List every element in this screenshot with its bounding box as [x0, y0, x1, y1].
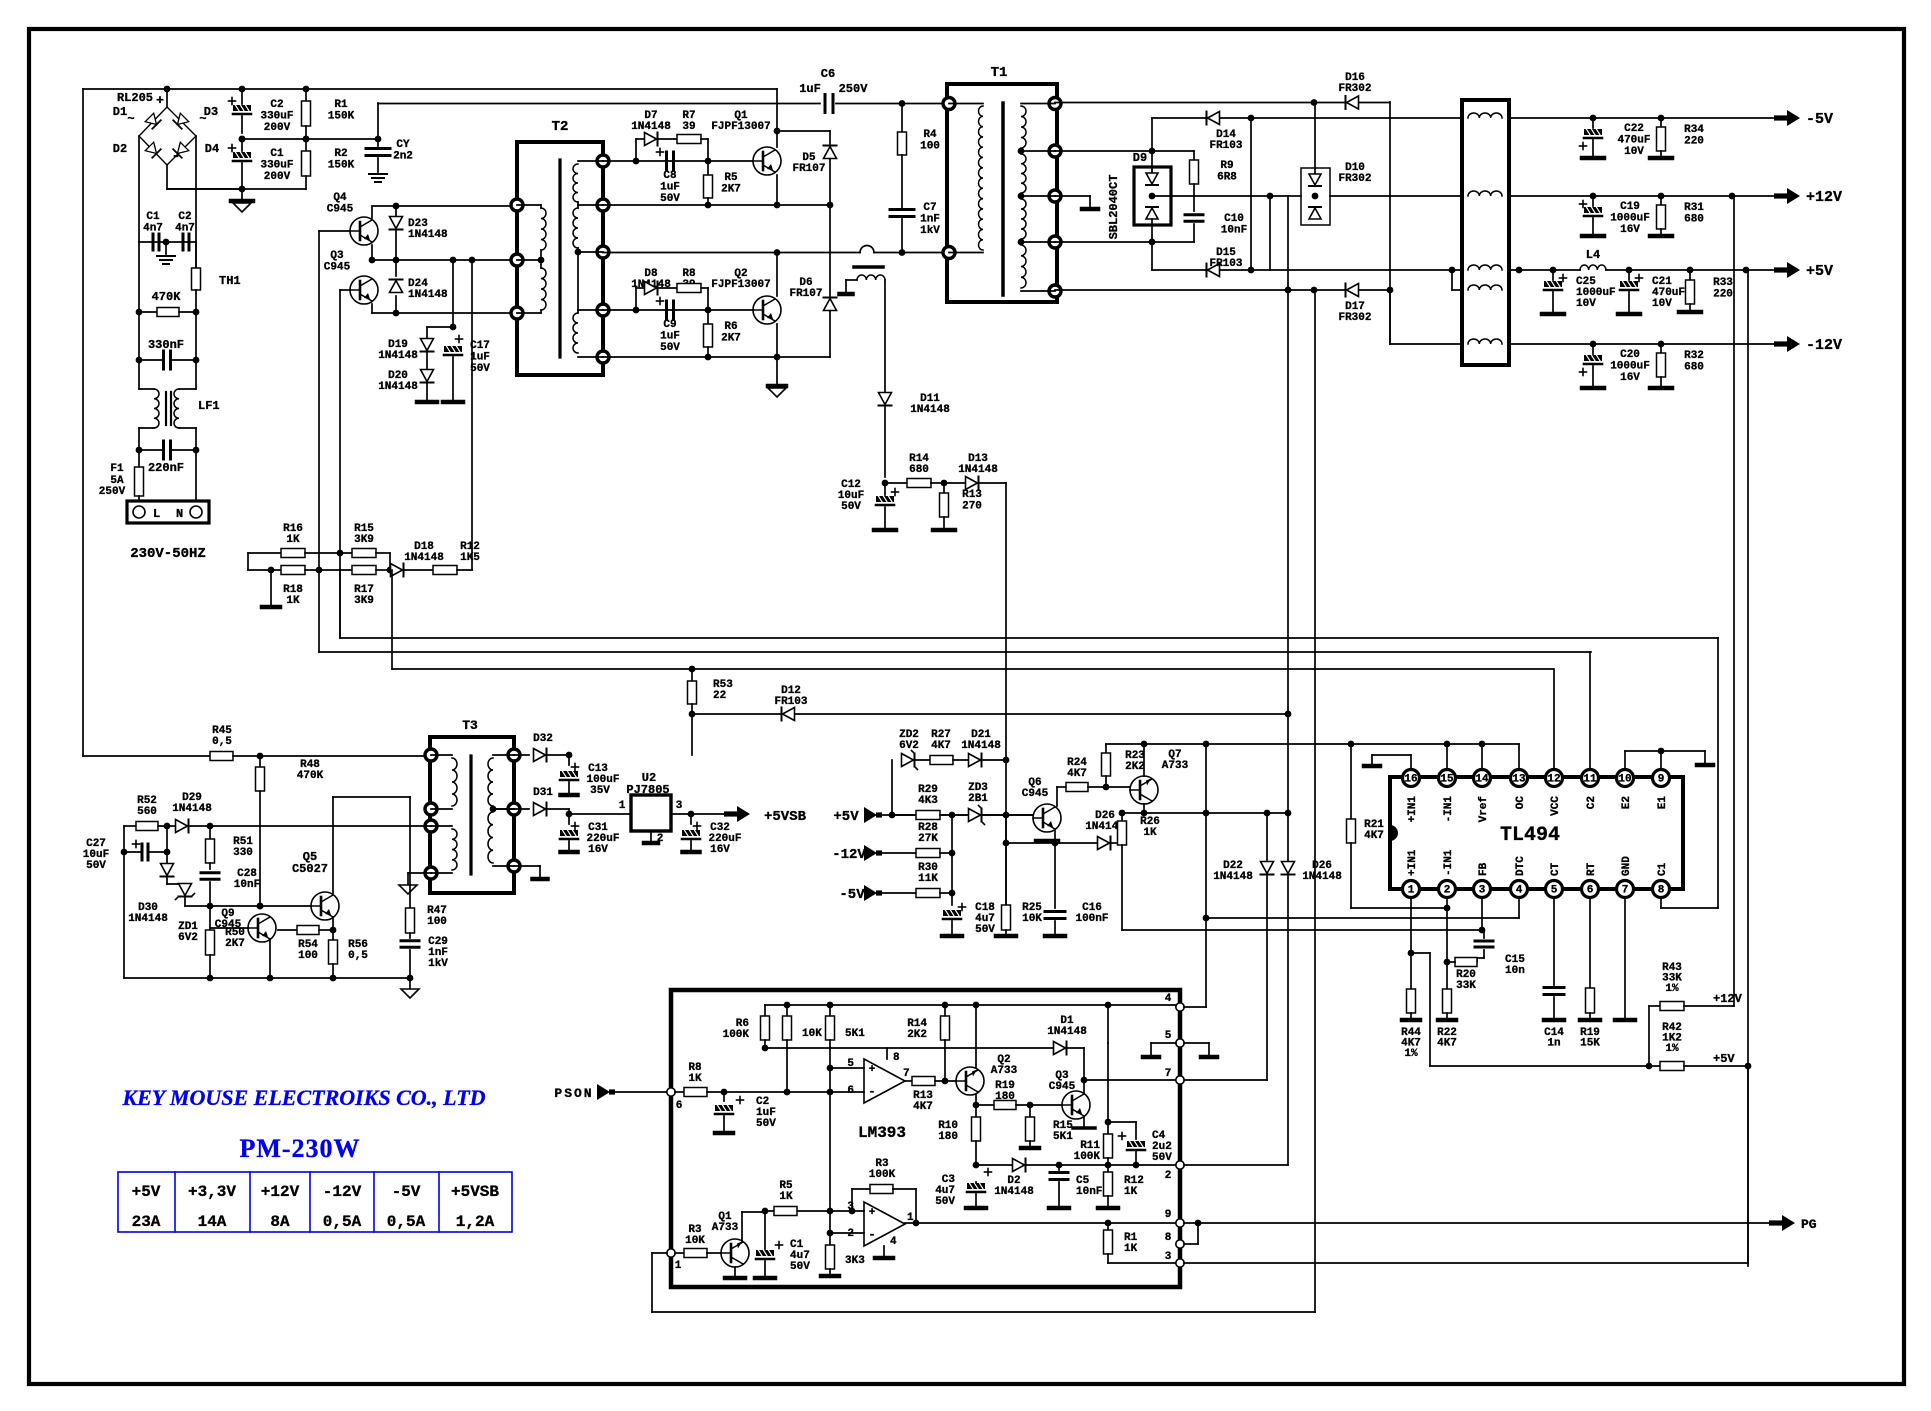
wire C12 row y=483 — [882, 480, 889, 487]
svg-text:3: 3 — [676, 800, 683, 812]
resistor R17 3K9 — [352, 566, 376, 575]
wire Q5 collector — [332, 797, 334, 893]
resistor R29 4K3 — [892, 814, 916, 816]
wire x=1206 vertical — [1205, 744, 1207, 1007]
wire T1 bottom row y=291 — [1055, 289, 1345, 291]
resistor R21 4K7 — [1350, 744, 1352, 819]
svg-text:C17: C17 — [470, 340, 490, 352]
svg-text:C20: C20 — [1620, 349, 1640, 361]
wire secondary row y=242 — [1055, 241, 1194, 243]
mains connector L N box — [127, 501, 209, 523]
TL494 pin 16 — [1403, 770, 1420, 787]
wire row y=313 to T2 — [372, 312, 517, 314]
svg-text:2: 2 — [1165, 1170, 1172, 1182]
svg-text:1nF: 1nF — [920, 214, 940, 226]
diode D18 1N4148 — [388, 569, 390, 571]
capacitor C10 10nF — [1185, 213, 1203, 216]
resistor R13b 4K7 — [912, 1077, 935, 1086]
capacitor C1 330uF — [241, 139, 243, 151]
resistor R52 560 — [123, 826, 125, 852]
resistor 3K3 — [826, 1245, 835, 1269]
svg-text:470K: 470K — [297, 770, 324, 782]
choke coil +5V b — [1468, 285, 1502, 290]
comp2 output row — [905, 1222, 1180, 1224]
svg-text:6V2: 6V2 — [899, 740, 919, 752]
svg-text:R2: R2 — [334, 148, 347, 160]
svg-text:6: 6 — [1587, 885, 1594, 897]
capacitor C13 100uF 35V — [568, 755, 570, 765]
svg-text:R13: R13 — [962, 489, 982, 501]
svg-text:+IN1: +IN1 — [1407, 796, 1419, 823]
svg-text:PSON: PSON — [554, 1086, 593, 1101]
TL494 pin 10 — [1617, 770, 1634, 787]
ground stub — [270, 570, 272, 605]
comp2 gnd pin4 — [883, 1246, 885, 1256]
wire Q7 collector row y=813 — [1143, 804, 1145, 813]
svg-text:2K7: 2K7 — [225, 938, 245, 950]
svg-text:1kV: 1kV — [920, 225, 940, 237]
svg-text:2n2: 2n2 — [393, 151, 413, 163]
wire FB row y=930 — [1122, 929, 1482, 931]
svg-text:10V: 10V — [1652, 298, 1672, 310]
svg-text:R32: R32 — [1684, 350, 1704, 362]
svg-text:KEY MOUSE ELECTROIKS CO., LTD: KEY MOUSE ELECTROIKS CO., LTD — [121, 1085, 485, 1110]
bridge rectifier RL205 — [139, 107, 196, 165]
resistor R54 100 — [278, 929, 297, 931]
arrow +12V — [1774, 193, 1788, 198]
svg-text:1%: 1% — [1665, 983, 1679, 995]
capacitor C28 10nF — [201, 871, 219, 874]
wire Q9 emitter — [269, 939, 271, 978]
svg-text:+IN1: +IN1 — [1407, 849, 1419, 876]
thermistor TH1 — [195, 242, 197, 268]
rail2 y=1048 — [765, 1047, 1053, 1049]
svg-text:1K: 1K — [286, 534, 300, 546]
resistor R19b 180 — [976, 1104, 994, 1106]
svg-text:4K7: 4K7 — [1067, 768, 1087, 780]
LM393 pin4 wire — [1176, 1003, 1184, 1011]
wire R21 bottom row — [1351, 907, 1447, 909]
rectifier D10 FR302 — [1301, 168, 1330, 225]
choke coil -5V — [1468, 113, 1502, 118]
svg-text:150K: 150K — [328, 160, 355, 172]
svg-text:0,5A: 0,5A — [323, 1213, 362, 1231]
output choke block — [1462, 100, 1509, 365]
capacitor C2 330uF — [241, 89, 243, 104]
resistor R1b 1K — [1107, 1223, 1109, 1230]
svg-text:1K: 1K — [1124, 1186, 1138, 1198]
svg-text:A733: A733 — [712, 1222, 739, 1234]
capacitor C22 470uF 10V — [1592, 118, 1594, 128]
svg-text:R4: R4 — [923, 129, 937, 141]
svg-text:1K: 1K — [688, 1073, 702, 1085]
wire R45 row y=756 — [83, 755, 210, 757]
svg-text:33K: 33K — [1456, 980, 1476, 992]
wire Q2 base row y=310 — [603, 309, 756, 311]
LM393 pin8 — [1176, 1240, 1184, 1248]
wire D16 vertical x=1390 — [1389, 102, 1391, 344]
svg-text:13: 13 — [1512, 774, 1526, 786]
TL494 pin 3 — [1474, 881, 1491, 898]
svg-text:5: 5 — [1165, 1030, 1172, 1042]
wire base row y=906 — [185, 905, 311, 907]
wire +12V out — [1509, 195, 1775, 197]
resistor R3b 10K — [675, 1252, 684, 1254]
capacitor C3 4u7 50V — [985, 1171, 992, 1173]
LM393 pin6 — [667, 1088, 675, 1096]
svg-text:8: 8 — [1165, 1232, 1172, 1244]
svg-text:FR107: FR107 — [792, 163, 825, 175]
resistor R19 15K — [1586, 988, 1595, 1013]
svg-text:1000uF: 1000uF — [1610, 361, 1650, 373]
svg-text:1N4148: 1N4148 — [128, 913, 168, 925]
wire R12 vertical — [471, 260, 473, 570]
V2 ground — [650, 831, 652, 841]
svg-text:16V: 16V — [588, 844, 608, 856]
svg-text:E2: E2 — [1621, 796, 1633, 809]
resistor R24 4K7 — [1066, 783, 1088, 792]
svg-text:1N4148: 1N4148 — [961, 740, 1001, 752]
wire pin1 down — [1410, 898, 1412, 989]
svg-text:23A: 23A — [132, 1213, 161, 1231]
svg-text:1,2A: 1,2A — [456, 1213, 495, 1231]
svg-text:4: 4 — [1165, 993, 1172, 1005]
svg-text:-12V: -12V — [832, 847, 866, 863]
svg-text:3K9: 3K9 — [354, 534, 374, 546]
svg-text:27K: 27K — [918, 833, 938, 845]
svg-text:9: 9 — [1658, 774, 1665, 786]
svg-text:1%: 1% — [1404, 1048, 1418, 1060]
resistor 10K — [786, 1005, 788, 1016]
svg-text:R9: R9 — [1220, 160, 1233, 172]
svg-text:C2: C2 — [270, 99, 283, 111]
wire to D14 — [1151, 118, 1153, 151]
comp2 - input — [830, 1232, 864, 1234]
wire x=1206 to LM393 pin4 — [1205, 1006, 1207, 1008]
svg-text:4n7: 4n7 — [143, 223, 163, 235]
svg-text:0,5A: 0,5A — [387, 1213, 426, 1231]
zener ZD3 2B1 — [940, 814, 968, 816]
TL494 pin 7 — [1617, 881, 1634, 898]
capacitor C19 1000uF 16V — [1592, 196, 1594, 206]
svg-text:CY: CY — [396, 139, 410, 151]
resistor R42 1K2 1% — [1430, 1065, 1660, 1067]
svg-text:5: 5 — [1551, 885, 1558, 897]
capacitor C31 220uF 16V — [568, 814, 570, 824]
svg-text:-: - — [171, 148, 180, 165]
svg-text:1N4148: 1N4148 — [1302, 871, 1342, 883]
svg-text:8A: 8A — [270, 1213, 290, 1231]
svg-text:1: 1 — [619, 800, 626, 812]
IC LM393 box — [671, 990, 1180, 1287]
svg-text:C22: C22 — [1624, 123, 1644, 135]
wire Q5 emitter — [332, 917, 334, 930]
diode D22 1N4148 — [1266, 813, 1268, 861]
resistor R1 150K — [305, 89, 307, 101]
svg-text:L: L — [153, 507, 160, 521]
svg-text:FR302: FR302 — [1338, 312, 1371, 324]
snubber left stub — [845, 280, 847, 292]
svg-text:OC: OC — [1515, 796, 1527, 810]
feedback R3 100K — [851, 1189, 853, 1211]
resistor R23 2K2 — [1105, 744, 1107, 753]
wire D12 row y=714 — [692, 713, 1288, 715]
svg-text:50V: 50V — [86, 860, 106, 872]
svg-text:CT: CT — [1550, 862, 1562, 876]
svg-text:FR103: FR103 — [1209, 258, 1242, 270]
svg-text:230V-50HZ: 230V-50HZ — [130, 546, 206, 562]
svg-text:FR103: FR103 — [774, 696, 807, 708]
wire D9 mid tap — [1152, 195, 1288, 197]
svg-text:R5: R5 — [724, 172, 738, 184]
svg-text:GND: GND — [1621, 856, 1633, 876]
TL494 pin 6 — [1582, 881, 1599, 898]
svg-text:100K: 100K — [1074, 1151, 1101, 1163]
diode D14 FR103 — [1152, 117, 1206, 119]
T1 secondary pins — [1049, 98, 1061, 110]
svg-text:10nF: 10nF — [234, 879, 260, 891]
svg-text:D31: D31 — [533, 787, 553, 799]
svg-text:-12V: -12V — [1806, 337, 1842, 354]
diode D11 1N4148 — [879, 393, 892, 405]
LM393 pin9 — [1176, 1219, 1184, 1227]
resistor R12 1K5 — [433, 566, 457, 575]
svg-text:10K: 10K — [1022, 913, 1042, 925]
svg-text:3K3: 3K3 — [845, 1255, 865, 1267]
wire pin11 C2 up — [1589, 652, 1591, 769]
wire left vertical x=83 — [82, 89, 84, 756]
wire y=103 line to T1 — [378, 103, 820, 105]
svg-text:10V: 10V — [1576, 298, 1596, 310]
TL494 pin 2 — [1439, 881, 1456, 898]
svg-text:1N4148: 1N4148 — [408, 229, 448, 241]
capacitor C17 1uF 50V — [456, 338, 463, 340]
svg-text:A733: A733 — [1162, 760, 1189, 772]
T3 coils — [431, 754, 452, 756]
resistor R14b 2K2 — [944, 1005, 946, 1016]
resistor R9 6R8 — [1193, 151, 1195, 160]
wire R53 to C13 node — [691, 714, 693, 755]
wire pin13 up — [1518, 744, 1520, 769]
comp1 inputs — [830, 1067, 864, 1069]
diode D20 1N4148 — [421, 370, 434, 382]
svg-text:10nF: 10nF — [1221, 225, 1247, 237]
svg-text:16V: 16V — [1620, 372, 1640, 384]
resistor R10 180 — [975, 1105, 977, 1117]
capacitor C4 2u2 50V — [1108, 1121, 1136, 1123]
rectifier D9 SBL2040CT — [1134, 167, 1171, 225]
wire x=1288 top — [1287, 196, 1289, 714]
wire bus y=652 — [318, 570, 320, 652]
wire pin5 CT down — [1553, 898, 1555, 985]
resistor R48 470K — [259, 756, 261, 767]
svg-text:C1: C1 — [146, 211, 160, 223]
svg-text:4K7: 4K7 — [913, 1101, 933, 1113]
transistor Q3b C945 — [1062, 1091, 1090, 1119]
svg-text:0,5: 0,5 — [348, 950, 368, 962]
svg-text:5K1: 5K1 — [1053, 1131, 1073, 1143]
svg-text:50V: 50V — [660, 342, 680, 354]
svg-text:10n: 10n — [1505, 965, 1525, 977]
svg-text:100nF: 100nF — [1075, 913, 1108, 925]
resistor R45 0,5 — [210, 752, 233, 761]
wire to D15 — [1151, 242, 1153, 270]
resistor R16 1K — [248, 552, 281, 554]
svg-text:2B1: 2B1 — [968, 793, 988, 805]
wire Q2 emitter row y=357 — [603, 356, 830, 358]
svg-text:7: 7 — [1622, 885, 1629, 897]
svg-text:4: 4 — [890, 1236, 897, 1248]
svg-text:L4: L4 — [1586, 248, 1600, 262]
svg-text:15K: 15K — [1580, 1038, 1600, 1050]
resistor R34 220 — [1660, 118, 1662, 127]
svg-text:1N4148: 1N4148 — [631, 121, 671, 133]
svg-text:11K: 11K — [918, 873, 938, 885]
svg-text:180: 180 — [938, 1131, 958, 1143]
wire bridge - down — [166, 165, 168, 189]
diode D2 1N4148 — [1013, 1159, 1025, 1172]
svg-text:10K: 10K — [802, 1028, 822, 1040]
zener ZD1 6V2 — [167, 883, 185, 885]
svg-text:1uF: 1uF — [799, 82, 821, 96]
capacitor C32 220uF 16V — [690, 814, 692, 824]
svg-text:2K2: 2K2 — [907, 1029, 927, 1041]
svg-text:C19: C19 — [1620, 201, 1640, 213]
svg-text:330uF: 330uF — [260, 111, 293, 123]
resistor R25 10K — [1005, 815, 1007, 843]
inductor L4 — [1580, 265, 1606, 270]
svg-text:50V: 50V — [756, 1118, 776, 1130]
svg-text:680: 680 — [1684, 362, 1704, 374]
resistor R56 0,5 — [332, 930, 334, 940]
svg-text:R1: R1 — [334, 99, 348, 111]
svg-text:1K5: 1K5 — [460, 552, 480, 564]
svg-text:150K: 150K — [328, 111, 355, 123]
TL494 pin 14 — [1474, 770, 1491, 787]
svg-text:2K7: 2K7 — [721, 184, 741, 196]
snubber right lead — [884, 280, 886, 392]
svg-text:10: 10 — [1618, 774, 1631, 786]
svg-text:1N4148: 1N4148 — [172, 803, 212, 815]
diode D21 1N4148 — [969, 754, 981, 767]
svg-text:50V: 50V — [1152, 1152, 1172, 1164]
diode D26b 1N4148 — [1287, 714, 1289, 861]
snubber inductor coil — [857, 275, 885, 280]
svg-text:+: + — [869, 1207, 876, 1219]
svg-text:1000uF: 1000uF — [1610, 213, 1650, 225]
svg-text:+: + — [156, 93, 164, 108]
svg-text:1uF: 1uF — [470, 352, 490, 364]
arrow -12V — [1774, 341, 1788, 346]
wire to V2 — [569, 813, 631, 815]
svg-text:10nF: 10nF — [1076, 1186, 1102, 1198]
svg-text:N: N — [176, 507, 183, 521]
wire bridge + to top bus — [166, 89, 168, 107]
wire x=1718 — [1717, 638, 1719, 908]
wire N side — [195, 450, 197, 501]
svg-text:D2: D2 — [113, 142, 127, 156]
LM393 pin1 — [667, 1249, 675, 1257]
capacitor C14 1n — [1544, 986, 1564, 989]
resistor R31 680 — [1660, 196, 1662, 205]
svg-text:100K: 100K — [869, 1169, 896, 1181]
svg-text:+12V: +12V — [261, 1183, 300, 1201]
wire Q4 collector to y=207 — [371, 207, 373, 218]
capacitor C16 100nF — [1054, 843, 1056, 908]
capacitor C12 10uF 50V — [884, 483, 886, 495]
svg-text:+5V: +5V — [833, 809, 859, 825]
choke coil -12V — [1468, 339, 1502, 344]
arrow +5V — [1774, 267, 1788, 272]
Q3b emitter — [1083, 1116, 1085, 1126]
svg-text:1N4148: 1N4148 — [1047, 1026, 1087, 1038]
svg-text:R31: R31 — [1684, 202, 1704, 214]
diode D19 1N4148 — [426, 327, 428, 338]
svg-text:220: 220 — [1684, 136, 1704, 148]
wire secondary row y=151 — [1055, 150, 1194, 152]
Q1b emitter gnd — [734, 1267, 736, 1276]
svg-text:4: 4 — [1516, 885, 1523, 897]
transistor Q4 C945 — [350, 217, 378, 245]
svg-text:1: 1 — [1408, 885, 1415, 897]
TL494 pin 8 — [1653, 881, 1670, 898]
transistor Q2b A733 — [956, 1067, 984, 1095]
svg-text:3K9: 3K9 — [354, 595, 374, 607]
wire D22 to pin7 — [1184, 1079, 1267, 1081]
svg-text:R6: R6 — [724, 321, 737, 333]
svg-text:FR107: FR107 — [789, 288, 822, 300]
comp1 output — [905, 1080, 912, 1082]
svg-text:100: 100 — [427, 916, 447, 928]
resistor R15b 5K1 — [1029, 1105, 1031, 1117]
svg-text:C945: C945 — [324, 262, 351, 274]
diode D17 FR302 — [1347, 284, 1359, 297]
resistor R14 680 — [907, 479, 931, 488]
svg-text:Vref: Vref — [1478, 796, 1490, 823]
wire row y=1165 — [976, 1164, 1180, 1166]
svg-text:Q4: Q4 — [333, 192, 347, 204]
resistor R8 — [677, 284, 701, 293]
ground below Q2 emitter — [776, 357, 778, 385]
wire C27 left down — [123, 852, 125, 978]
wire pin1 sense link — [1411, 952, 1430, 954]
wire bottom row y=978 — [124, 977, 410, 979]
svg-text:C9: C9 — [663, 319, 676, 331]
svg-text:1uF: 1uF — [660, 182, 680, 194]
svg-text:180: 180 — [995, 1091, 1015, 1103]
svg-text:7: 7 — [903, 1068, 910, 1080]
svg-text:330: 330 — [233, 847, 253, 859]
resistor R47 100 — [409, 797, 411, 908]
resistor R28 27K — [880, 852, 916, 854]
resistor R13 270 — [943, 483, 945, 493]
resistor R43 33K 1% — [1648, 1006, 1650, 1066]
svg-text:FJPF13007: FJPF13007 — [711, 279, 770, 291]
wire pin4 DTC down — [1518, 898, 1520, 918]
arrow -5V — [1774, 115, 1788, 120]
svg-text:8: 8 — [893, 1052, 900, 1064]
svg-text:1N4148: 1N4148 — [378, 350, 418, 362]
svg-text:330uF: 330uF — [260, 160, 293, 172]
svg-text:C10: C10 — [1224, 213, 1244, 225]
Q1b collector — [741, 1212, 743, 1241]
wire bridge left arm down — [138, 136, 140, 242]
svg-text:1K: 1K — [779, 1191, 793, 1203]
T3 left bottom ground — [408, 872, 431, 874]
resistor R22 4K7 — [1443, 989, 1452, 1013]
svg-text:C7: C7 — [923, 202, 936, 214]
wire -12V feed — [1389, 290, 1391, 344]
